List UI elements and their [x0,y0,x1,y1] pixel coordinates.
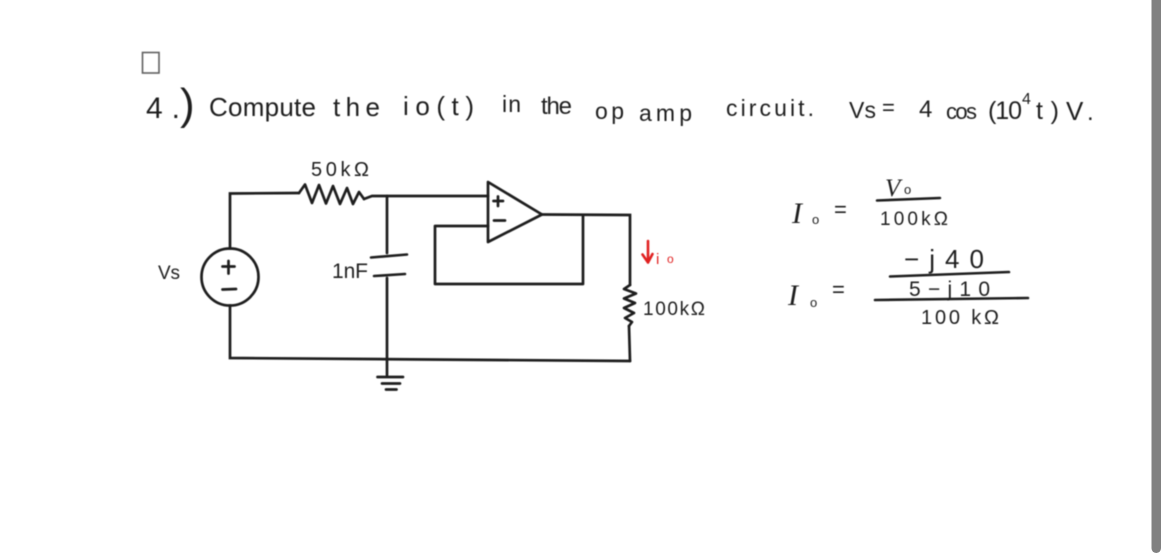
svg-text:t): t) [1036,97,1059,125]
resistor R2 100k (vertical zigzag) [624,285,636,326]
wire: load bottom to bottom rail [629,326,630,361]
op-amp U1 [488,182,542,242]
svg-text:): ) [180,80,195,129]
svg-text:V: V [1066,96,1084,126]
svg-text:100kΩ: 100kΩ [643,299,705,320]
svg-text:o: o [810,295,817,310]
svg-text:=: = [832,277,845,302]
svg-text:o: o [812,212,819,227]
equation 2: Io = (−j40)/(5−j10) / 100kΩ [787,244,999,329]
svg-text:Vs: Vs [849,97,876,123]
svg-text:(10: (10 [988,97,1022,125]
svg-text:op: op [595,98,624,124]
equation 1 fraction bar [877,198,940,201]
svg-text:amp: amp [639,100,692,126]
capacitor C1 1nF [371,255,407,277]
svg-text:Compute: Compute [209,92,316,122]
svg-text:io(t): io(t) [403,91,474,121]
svg-text:in: in [502,91,521,117]
svg-text:4: 4 [919,96,932,123]
svg-text:I: I [791,197,804,230]
wire: source top to resistor [230,193,299,249]
svg-text:circuit.: circuit. [726,95,814,121]
svg-text:100kΩ: 100kΩ [880,209,948,230]
svg-text:.: . [1087,99,1094,126]
svg-text:i: i [656,251,659,268]
label io (red) [656,251,674,268]
svg-text:4: 4 [1022,91,1031,108]
label Vs (source value) [158,263,180,284]
wire: inverting input feedback loop [435,216,583,284]
equation 1: Io = Vo / 100kΩ [791,175,948,230]
svg-text:−j40: −j40 [904,244,984,274]
wire: capacitor bottom to ground/bottom rail [386,278,389,375]
node: capacitor tap junction [386,196,389,253]
wire: bottom rail [230,306,630,362]
wire: op-amp output to load [542,215,630,286]
svg-text:o: o [904,182,911,197]
svg-text:=: = [834,197,847,222]
current arrow io (red) [643,241,653,263]
svg-text:=: = [882,95,895,120]
svg-text:o: o [667,252,674,266]
voltage source Vs [202,249,259,306]
svg-text:V: V [885,175,903,202]
svg-text:50kΩ: 50kΩ [311,159,369,181]
label 1nF [332,260,368,283]
scrollbar [1152,0,1162,553]
title text: problem statement [146,80,1094,129]
svg-text:100 kΩ: 100 kΩ [921,307,999,329]
checkbox marker [143,53,160,74]
equation 2 fraction bars [875,272,1028,300]
wire: resistor to op-amp + input (through capacitor node) [364,196,488,199]
svg-text:4.: 4. [146,92,180,125]
svg-text:I: I [787,279,800,312]
label 100kΩ [643,299,705,320]
resistor R1 50k (horizontal zigzag) [299,185,364,205]
svg-text:Vs: Vs [158,263,180,284]
svg-text:the: the [541,93,572,120]
svg-text:1nF: 1nF [332,260,368,283]
ground [378,377,404,390]
label 50kΩ [311,159,369,181]
svg-text:the: the [333,92,380,122]
svg-text:cos: cos [946,99,977,124]
